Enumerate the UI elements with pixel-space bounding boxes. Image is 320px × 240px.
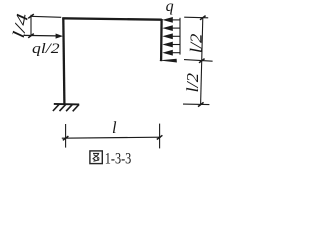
right dim: middle tick xyxy=(199,59,205,63)
right dim: top extension line xyxy=(184,16,208,19)
svg-text:l/2: l/2 xyxy=(183,73,202,93)
right dim: bottom tick xyxy=(198,102,204,106)
svg-text:ql/2: ql/2 xyxy=(32,41,60,57)
load arrow 3 xyxy=(162,33,180,39)
dimension l/4: top tick xyxy=(28,14,34,18)
dimension l/4: top extension line xyxy=(31,16,62,17)
bottom dim: left extension line xyxy=(65,124,67,148)
left column xyxy=(63,18,64,104)
support hatch 1 xyxy=(53,104,59,111)
right dim: middle extension line xyxy=(184,60,213,62)
beam (top horizontal member) xyxy=(62,18,162,19)
right dimension line (l/2 + l/2) xyxy=(201,18,203,105)
right column (short leg, length l/2) xyxy=(160,19,163,61)
support hatch 2 xyxy=(60,104,66,111)
load ql/2 arrow xyxy=(24,34,64,39)
support hatch 3 xyxy=(66,104,72,111)
svg-text:q: q xyxy=(166,0,174,15)
load arrow 1 xyxy=(162,17,180,23)
load arrow 6 (at free end of right column) xyxy=(159,59,177,63)
support hatch 4 xyxy=(73,105,79,112)
caption glyph 图 xyxy=(90,151,102,164)
dimension l/4: bottom tick xyxy=(28,34,34,38)
bottom dim: right extension line xyxy=(159,124,161,149)
bottom dimension line (l) xyxy=(62,137,161,138)
distributed load baseline xyxy=(179,18,181,55)
svg-text:1-3-3: 1-3-3 xyxy=(105,150,132,167)
load arrow 4 xyxy=(162,42,180,48)
bottom dim: right tick xyxy=(157,135,163,139)
right dim: bottom extension line xyxy=(183,103,209,106)
dimension l/4: vertical dimension line xyxy=(30,15,32,36)
fixed support base line xyxy=(54,103,79,106)
load arrow 2 xyxy=(162,25,180,31)
svg-text:l: l xyxy=(112,118,117,137)
svg-text:l/2: l/2 xyxy=(187,34,206,54)
bottom dim: left tick xyxy=(63,136,69,140)
load arrow 5 xyxy=(162,50,180,56)
right dim: top tick xyxy=(200,16,206,20)
